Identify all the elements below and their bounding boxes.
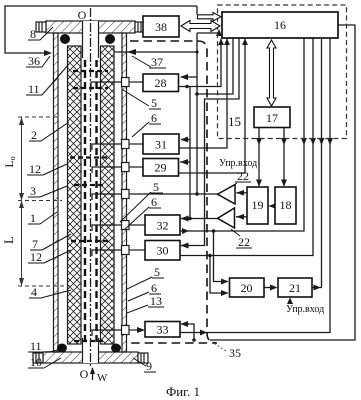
- svg-text:10: 10: [30, 355, 42, 369]
- svg-text:22: 22: [237, 169, 249, 183]
- svg-text:2: 2: [31, 128, 37, 142]
- wire 32 output riser: [181, 39, 305, 232]
- svg-text:W: W: [97, 372, 108, 384]
- port gland y82: [91, 78, 143, 91]
- svg-text:Фиг. 1: Фиг. 1: [166, 384, 200, 399]
- wire 31 input: [181, 139, 190, 141]
- bolt right bottom: [138, 353, 148, 363]
- label 7: [30, 234, 71, 251]
- seal right top: [105, 34, 115, 44]
- centerline axis O-O: [90, 8, 92, 368]
- block 19: [247, 187, 268, 224]
- block diagram wires: [179, 25, 356, 340]
- svg-text:31: 31: [155, 138, 167, 152]
- label 6 mid: [124, 195, 161, 230]
- label 9: [133, 358, 156, 373]
- wire amp2 out to 32: [181, 218, 218, 220]
- wire bus tap to unit 16 bottom: [197, 32, 219, 34]
- seal right bottom: [111, 344, 121, 353]
- port gland y250: [92, 246, 145, 257]
- svg-text:Упр.вход: Упр.вход: [219, 158, 257, 169]
- svg-text:5: 5: [153, 180, 159, 194]
- wire 20 to 21: [264, 287, 277, 289]
- svg-text:18: 18: [280, 198, 292, 212]
- svg-text:37: 37: [151, 55, 163, 69]
- label 22 lower: [231, 229, 252, 249]
- svg-text:6: 6: [151, 111, 157, 125]
- block 30: [145, 241, 180, 261]
- svg-text:20: 20: [241, 281, 253, 295]
- svg-text:33: 33: [157, 323, 169, 337]
- wire 33 input from riser bottom: [181, 324, 194, 340]
- svg-text:15: 15: [228, 114, 241, 129]
- wire control drop x190: [189, 87, 191, 219]
- block 18: [275, 187, 296, 224]
- svg-text:3: 3: [30, 184, 36, 198]
- label 1: [28, 211, 57, 225]
- svg-text:L: L: [1, 236, 16, 244]
- svg-text:6: 6: [151, 195, 157, 209]
- label 8: [28, 27, 53, 41]
- ports on right wall: [91, 78, 218, 337]
- block 32: [145, 215, 180, 235]
- wire top loop from column port 36 to unit 16: [5, 6, 197, 53]
- svg-text:21: 21: [289, 281, 301, 295]
- bolt left top: [36, 22, 46, 32]
- label 11: [26, 64, 69, 96]
- svg-text:35: 35: [229, 346, 241, 360]
- label 5 lower: [127, 265, 164, 289]
- label 12 lower: [28, 250, 71, 264]
- column assembly: [33, 21, 148, 363]
- wire 17 to 18: [283, 128, 285, 187]
- block 31: [143, 134, 179, 154]
- svg-text:O: O: [80, 367, 89, 381]
- port gland y194 electrode feed: [92, 190, 218, 201]
- wire 16 branch to bus x197: [197, 39, 233, 95]
- wire 29 output riser: [179, 39, 245, 174]
- label 12: [27, 162, 67, 176]
- label 5 upper: [123, 90, 161, 110]
- block 16: [222, 12, 338, 38]
- top flange: [46, 21, 135, 33]
- block 21: [278, 278, 312, 297]
- wire vertical bus x=197 upper: [196, 6, 198, 15]
- wire 28 input from bus: [181, 76, 197, 78]
- node arrow into port 36: [44, 50, 52, 56]
- junction dots: [185, 50, 215, 341]
- label 22 upper: [229, 169, 251, 188]
- svg-text:12: 12: [30, 250, 42, 264]
- inner perforated tube dashed walls: [85, 60, 97, 343]
- label 37: [132, 55, 166, 69]
- wire 19 to amp1: [237, 192, 248, 194]
- node W arrow: [90, 367, 108, 384]
- bus arrow 16-17: [267, 40, 276, 106]
- svg-text:5: 5: [154, 265, 160, 279]
- block 17: [254, 107, 290, 128]
- svg-text:O: O: [78, 8, 87, 22]
- boundary 35 dashed outline: [130, 41, 217, 343]
- label 11 lower: [28, 339, 62, 353]
- wire vertical bus x=197 lower: [196, 33, 198, 194]
- label 2: [29, 122, 69, 142]
- svg-text:4: 4: [31, 285, 37, 299]
- port gland y330: [92, 326, 145, 337]
- tube partitions dashed rungs: [70, 71, 110, 341]
- block 28: [143, 74, 179, 92]
- wire 19 to amp2: [236, 216, 247, 218]
- svg-text:7: 7: [32, 237, 38, 251]
- wire 30 output riser: [181, 39, 314, 256]
- label 13: [127, 294, 164, 313]
- wall block right crosshatch: [101, 46, 115, 344]
- svg-text:8: 8: [30, 27, 36, 41]
- label 4: [29, 285, 71, 299]
- dimension line L2: [19, 117, 24, 286]
- svg-text:9: 9: [146, 359, 152, 373]
- svg-text:12: 12: [29, 162, 41, 176]
- block 38: [143, 16, 179, 37]
- seal left bottom: [57, 344, 67, 353]
- svg-text:11: 11: [28, 82, 40, 96]
- wire 18 to 19: [270, 205, 276, 207]
- wall block left crosshatch: [68, 46, 82, 344]
- arrowheads: [180, 39, 333, 336]
- svg-text:11: 11: [30, 339, 42, 353]
- wire control input 21: [289, 299, 291, 304]
- wire 16 right loop: [210, 25, 355, 340]
- svg-text:36: 36: [28, 54, 40, 68]
- wire 33 output riser: [181, 39, 331, 333]
- svg-text:19: 19: [252, 198, 264, 212]
- label 5 mid: [120, 180, 163, 222]
- bolt left bottom: [33, 353, 43, 363]
- svg-text:22: 22: [238, 235, 250, 249]
- wire 37 line from right wall to bus: [114, 51, 197, 53]
- wire 17 to 19: [258, 128, 260, 187]
- dimension extension lines: [18, 117, 70, 286]
- bus arrow 38-16: [181, 21, 220, 32]
- svg-text:38: 38: [155, 20, 167, 34]
- svg-text:17: 17: [266, 111, 278, 125]
- wire 21 output riser: [312, 39, 322, 288]
- bottom flange: [43, 352, 138, 363]
- svg-text:13: 13: [150, 294, 162, 308]
- casing wall right strip: [122, 33, 127, 352]
- label 3: [28, 184, 67, 198]
- svg-text:29: 29: [155, 161, 167, 175]
- label 36: [26, 54, 50, 68]
- wire tap to 20 input b: [210, 256, 228, 294]
- wire 28 output riser: [179, 39, 222, 87]
- wire 31 output riser: [180, 39, 228, 149]
- central tube top: [83, 21, 99, 58]
- bus arrow into 16: [198, 13, 222, 22]
- casing wall left strip: [54, 33, 59, 352]
- svg-text:1: 1: [30, 211, 36, 225]
- svg-text:Упр.вход: Упр.вход: [286, 304, 324, 315]
- block 20: [230, 278, 265, 297]
- central tube bottom: [83, 338, 99, 363]
- svg-text:5: 5: [151, 96, 157, 110]
- port gland y225: [92, 221, 145, 232]
- bolt right top: [135, 22, 145, 32]
- label 6 upper: [132, 111, 161, 137]
- amplifier 22 lower: [218, 208, 235, 228]
- svg-text:6: 6: [151, 281, 157, 295]
- block 29: [143, 159, 179, 177]
- node arrow 37 into wall: [127, 49, 136, 55]
- svg-text:30: 30: [157, 244, 169, 258]
- amplifier 22 upper: [218, 185, 236, 205]
- svg-text:16: 16: [274, 18, 286, 32]
- seal left top: [60, 34, 70, 44]
- wire tap to 20 input a: [214, 231, 229, 282]
- svg-text:28: 28: [155, 76, 167, 90]
- wire 29 input: [180, 161, 190, 163]
- label 35: [212, 342, 241, 360]
- port gland y144: [92, 140, 143, 151]
- unit 15 dashed box: [218, 5, 347, 139]
- block 33: [145, 322, 180, 338]
- svg-text:32: 32: [157, 219, 169, 233]
- wire 16 to bus x204: [181, 39, 239, 246]
- label 6 lower: [128, 281, 161, 301]
- port gland y167: [92, 163, 144, 174]
- label 10: [28, 355, 61, 369]
